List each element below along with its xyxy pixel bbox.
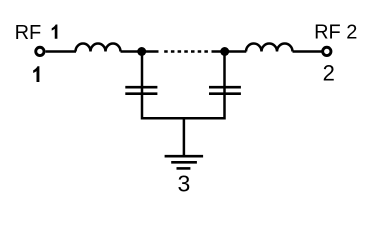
- ground stem wire: [183, 118, 186, 156]
- wire node B side: [212, 50, 247, 53]
- capacitor C1 top plate: [125, 86, 157, 89]
- ground bar 1: [165, 155, 204, 158]
- svg-text:RF 2: RF 2: [314, 22, 357, 44]
- wire port1 to L1: [46, 50, 76, 53]
- wire L1 to node A: [121, 50, 159, 53]
- inductor L2: [246, 44, 293, 52]
- port terminal 1 circle: [36, 47, 44, 55]
- capacitor C2 top plate: [209, 86, 241, 89]
- node B junction dot: [220, 47, 229, 56]
- capacitor C2 bottom plate: [209, 92, 241, 95]
- inductor L1: [76, 44, 121, 52]
- pin label 1 (digit 1 glyph): [33, 66, 39, 82]
- ground bar 2: [171, 161, 197, 164]
- svg-text:RF: RF: [15, 22, 42, 44]
- shunt branch wires: left vertical, bottom bus, right vertical: [142, 52, 225, 119]
- ground bar 3: [177, 167, 191, 170]
- node A junction dot: [137, 47, 146, 56]
- capacitor C1 bottom plate: [125, 92, 157, 95]
- svg-text:2: 2: [323, 60, 335, 85]
- dashed wire between node A and node B: [164, 50, 208, 53]
- label RF 1 (digit 1 glyph): [52, 25, 58, 39]
- svg-text:3: 3: [178, 171, 191, 197]
- wire L2 to port 2: [293, 50, 322, 53]
- port terminal 2 circle: [323, 47, 331, 55]
